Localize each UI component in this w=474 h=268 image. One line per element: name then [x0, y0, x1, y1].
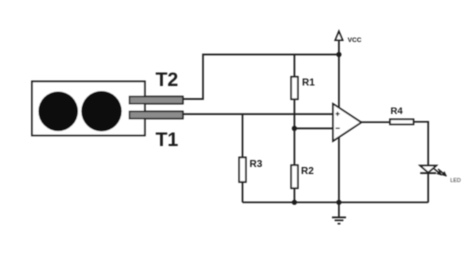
wire R2 to bottom rail [293, 188, 295, 202]
wire op-amp output [361, 121, 390, 123]
wire R1 bottom to R2 top [293, 99, 295, 165]
sensor electrode right [81, 91, 121, 131]
bottom rail wire [243, 201, 429, 203]
terminal bar T2 [130, 97, 183, 104]
junction node top rail / VCC [336, 52, 341, 57]
LED cathode bar [420, 172, 436, 174]
sensor electrode left [38, 92, 78, 132]
resistor R4 [390, 119, 414, 124]
op-amp U1 [333, 104, 361, 141]
junction node ground [336, 200, 341, 205]
resistor R1 [291, 77, 298, 99]
wire T2 to top rail [183, 55, 339, 100]
LED light arrow 1 [432, 166, 444, 177]
VCC rail wire [338, 40, 340, 202]
svg-text:LED: LED [450, 178, 461, 184]
ground symbol [332, 217, 346, 223]
wire R4 to LED [414, 122, 429, 166]
wire R3 branch [242, 114, 244, 157]
svg-text:R3: R3 [250, 159, 263, 170]
wire inverting input [294, 127, 333, 129]
op-amp minus input symbol [336, 127, 340, 129]
wire top rail to R1 [293, 55, 295, 77]
junction node inverting input [292, 126, 297, 131]
VCC arrow symbol [335, 31, 342, 40]
terminal bar T1 [130, 111, 183, 118]
sensor probe box [32, 81, 145, 135]
svg-text:R1: R1 [302, 77, 315, 88]
svg-text:R4: R4 [391, 106, 404, 117]
svg-text:R2: R2 [301, 166, 314, 177]
resistor R2 [291, 165, 298, 188]
svg-text:VCC: VCC [348, 37, 362, 44]
wire ground stub [338, 202, 340, 217]
wire T1 to op-amp non-inverting input [183, 113, 334, 115]
junction node R2 bottom rail [292, 200, 297, 205]
svg-text:T1: T1 [156, 129, 179, 151]
resistor R3 [239, 157, 246, 182]
wire R3 to bottom rail [242, 182, 244, 202]
svg-text:T2: T2 [156, 69, 179, 91]
LED D1 [420, 166, 436, 173]
LED light arrow 2 [436, 167, 448, 178]
wire LED to bottom rail [427, 173, 429, 202]
op-amp plus input symbol [336, 112, 340, 116]
